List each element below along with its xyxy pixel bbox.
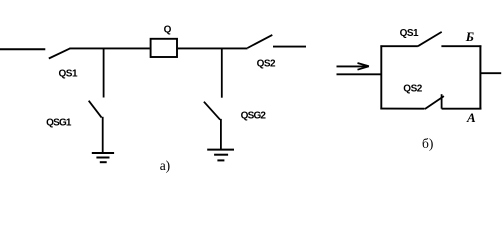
wire QSG2 to ground: [220, 119, 222, 150]
wire top-right segment: [441, 45, 481, 47]
svg-text:QS2: QS2: [257, 59, 276, 70]
switch QS2 contact post (diagram b): [441, 94, 443, 109]
svg-text:б): б): [422, 136, 433, 151]
wire bus right segment: [178, 47, 248, 49]
wire top-left segment: [380, 45, 418, 47]
svg-text:QS1: QS1: [400, 28, 419, 39]
switch QS2 blade (diagram b): [425, 96, 444, 109]
ground symbol 1: [92, 153, 114, 162]
wire input lead (diagram b): [337, 73, 383, 75]
earthing switch QSG2 blade: [204, 102, 220, 120]
wire bottom-right segment: [442, 108, 482, 110]
wire drop to QSG2: [221, 48, 223, 98]
svg-text:а): а): [160, 158, 171, 173]
disconnect switch QS2 blade: [248, 35, 273, 48]
svg-text:А: А: [466, 110, 476, 125]
flow arrow (diagram b): [337, 63, 369, 70]
wire QSG1 to ground: [102, 117, 104, 153]
svg-text:Б: Б: [465, 29, 474, 44]
wire right edge: [479, 45, 481, 109]
wire left lead (diagram a): [0, 48, 45, 50]
wire output lead (diagram b): [480, 72, 501, 74]
switch QS1 blade (diagram b): [418, 32, 442, 46]
svg-text:QSG2: QSG2: [241, 110, 267, 121]
disconnect switch QS1 blade: [49, 48, 70, 58]
svg-text:QSG1: QSG1: [46, 117, 72, 128]
svg-text:Q: Q: [164, 24, 172, 35]
breaker Q box: [151, 39, 177, 57]
svg-text:QS2: QS2: [403, 83, 422, 94]
wire bus left segment: [69, 47, 149, 49]
earthing switch QSG1 blade: [89, 101, 102, 118]
wire drop to QSG1: [103, 48, 105, 98]
wire left edge: [380, 45, 382, 109]
wire bottom-left segment: [380, 108, 424, 110]
ground symbol 2: [207, 150, 234, 161]
wire right lead (diagram a): [273, 46, 306, 48]
svg-text:QS1: QS1: [59, 68, 78, 79]
